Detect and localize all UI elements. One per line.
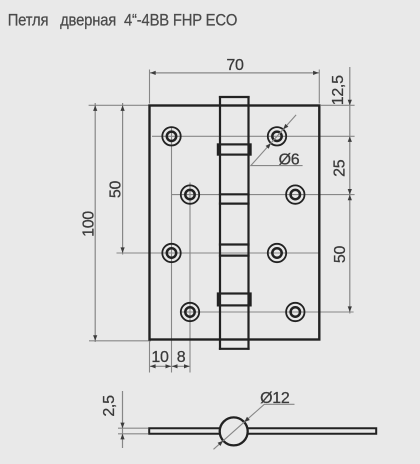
right dim line [349,67,351,314]
svg-text:70: 70 [226,57,244,74]
dim 70 arrow right [313,71,319,75]
hole A3 outer circle [162,244,180,262]
dim 100 arrow top (up) [93,105,97,111]
hole B4 outer circle [181,303,199,321]
barrel joint line 1b [219,203,250,205]
barrel joint line 2b [219,255,250,257]
dim 2,5 line [122,391,124,448]
hole D2 outer circle [286,185,304,203]
dim 100 arrow bottom (down) [93,335,97,341]
hole C3 inner circle [272,248,281,257]
dim 12,5 arrow top (down) [348,100,352,106]
hole D4 inner circle [291,307,300,316]
hole C1 inner circle [272,132,281,141]
barrel left edge [219,96,221,350]
side view leaf bar left part [149,428,225,434]
barrel bearing segment 1 [218,144,251,154]
centerline row 4 [181,311,354,313]
dia12 arrow lower [218,441,224,446]
dim 2,5 extension top [118,427,148,429]
svg-text:12,5: 12,5 [330,75,347,105]
hole B2 outer circle [181,185,199,203]
barrel bottom cap line [219,348,250,350]
dia12 arrow upper [244,417,250,422]
svg-text:Петля дверная 4“-4ВВ FHP EC: Петля дверная 4“-4ВВ FHP ECO [8,10,238,29]
dim 2,5 arrow top (down) [120,423,124,429]
svg-text:8: 8 [177,349,186,366]
hole C1 outer circle [268,127,286,145]
svg-text:100: 100 [81,211,98,237]
svg-text:Ø12: Ø12 [260,390,290,407]
hole D2 inner circle [291,190,300,199]
dim 10 arrow left [150,364,156,368]
dim 100 line [94,103,96,342]
svg-text:2,5: 2,5 [101,395,118,417]
hole A1 outer circle [162,127,180,145]
side view barrel circle [220,417,248,445]
barrel right edge [247,96,249,350]
dim 10/8 line [150,365,191,367]
dim 50 left line [122,103,124,255]
dim 70 arrow left [150,71,156,75]
left dim extension bottom [89,340,151,342]
dim 50 arrow at row2 (up) [348,195,352,201]
centerline col B [189,183,191,373]
svg-text:10: 10 [151,349,169,366]
dim 8 arrow left [172,364,178,368]
centerline row 2 [172,194,355,196]
dim 10/8 extension at plate left [149,341,151,373]
dim 70 extension left [149,70,151,104]
dim 12,5 / 25 arrow at row1 (up) [348,136,352,142]
hole A1 inner circle [167,132,176,141]
dim 50 left arrow bottom (down) [121,247,125,253]
dia6 leader line [251,115,303,166]
dim 50 left arrow top (up) [121,105,125,111]
svg-text:50: 50 [332,246,349,264]
dim 50 arrow at row4 (down) [348,306,352,312]
dim 2,5 arrow bottom (up) [120,434,124,440]
dia6 arrow upper [283,124,288,129]
hole A3 inner circle [167,248,176,257]
dim 70 line [150,72,320,74]
barrel bearing segment 2 [218,294,251,306]
left dim extension top [89,104,150,106]
svg-text:Ø6: Ø6 [279,151,300,168]
dia6 arrow lower [266,143,271,149]
dia12 leader line [214,404,295,449]
centerline row 1 [152,135,355,137]
dim 8 arrow right [184,364,190,368]
dim 25 arrow at row2 (down) [348,189,352,195]
centerline col A [171,128,173,373]
hole D4 outer circle [286,303,304,321]
hinge plate outline [150,106,320,340]
centerline row 3 [117,252,320,254]
barrel joint line 2a [219,243,250,245]
svg-text:50: 50 [108,181,125,199]
barrel top cap line [219,96,250,98]
dim 2,5 extension bottom [118,433,148,435]
hole B2 inner circle [185,190,194,199]
hole B4 inner circle [185,307,194,316]
barrel joint line 1a [219,193,250,195]
hole C3 outer circle [268,244,286,262]
svg-text:25: 25 [332,159,349,177]
dim 10 arrow right [166,364,172,368]
side view leaf bar right part [242,428,376,434]
dim 70 extension right [318,70,320,104]
right dim extension top (plate edge) [321,104,355,106]
